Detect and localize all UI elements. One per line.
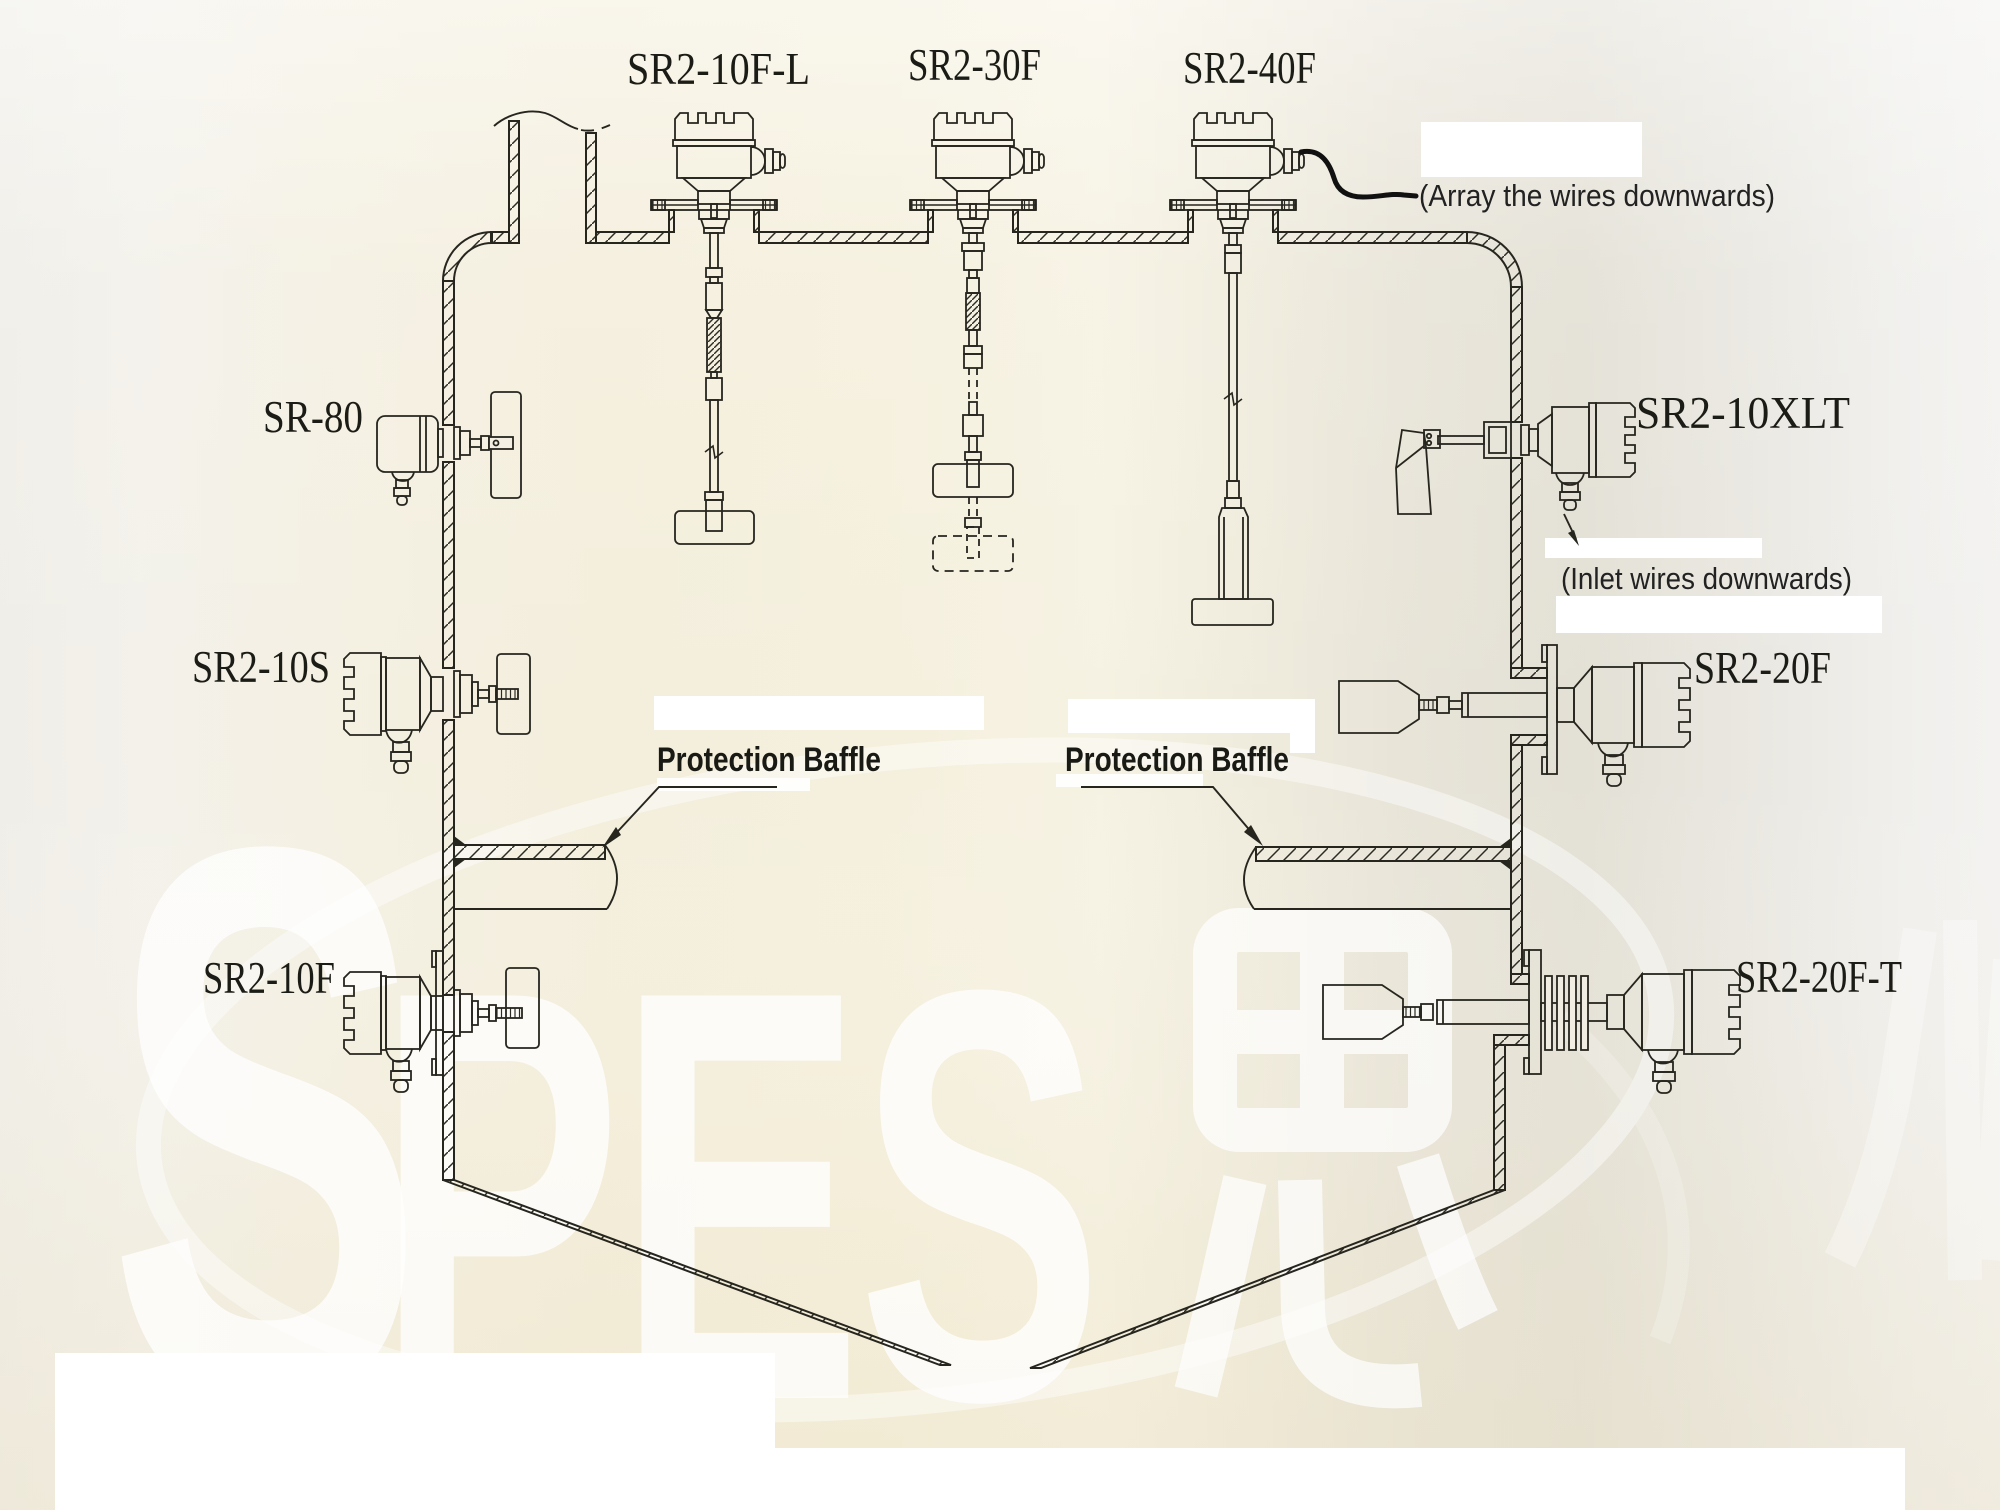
svg-text:(Array the wires downwards): (Array the wires downwards) <box>1419 178 1775 213</box>
svg-text:Protection Baffle: Protection Baffle <box>1065 741 1289 779</box>
chinese char blob 1 <box>1196 930 1478 1392</box>
left cone <box>443 1180 951 1365</box>
tank top-left rounded corner <box>443 232 492 281</box>
right wall SR2-20F-T top step bar <box>1511 974 1529 984</box>
right wall segment 3 <box>1511 745 1522 974</box>
svg-text:SR2-30F: SR2-30F <box>908 40 1041 90</box>
left wall segment 1 <box>443 281 454 425</box>
sensor SR2-20F-T <box>1323 950 1740 1093</box>
right wall SR2-20F top step bar <box>1511 668 1547 678</box>
svg-text:SR2-20F-T: SR2-20F-T <box>1736 952 1902 1002</box>
right protection baffle <box>1244 838 1511 909</box>
left baffle leader <box>602 787 777 848</box>
left protection baffle <box>454 836 617 909</box>
svg-text:SR2-10XLT: SR2-10XLT <box>1636 388 1850 438</box>
svg-text:SR2-10S: SR2-10S <box>192 642 330 692</box>
tank top plate segment nozzle2 to nozzle3 <box>1018 232 1188 243</box>
tank top-right rounded corner <box>1467 232 1522 287</box>
svg-text:SR2-10F-L: SR2-10F-L <box>627 44 810 94</box>
tank top plate segment nozzle1 to nozzle2 <box>759 232 928 243</box>
svg-text:(Inlet wires downwards): (Inlet wires downwards) <box>1561 561 1852 596</box>
left wall segment 2 <box>443 462 454 668</box>
tank top plate segment left of pipe <box>491 232 509 243</box>
right wall segment 1 <box>1511 287 1522 422</box>
tank top plate segment nozzle3 to right corner <box>1278 232 1467 243</box>
svg-text:Protection Baffle: Protection Baffle <box>657 741 881 779</box>
left wall segment 3 <box>443 720 454 995</box>
sensor SR2-10S <box>344 653 530 773</box>
sensor SR2-10F-L <box>651 113 785 544</box>
chinese char blob right edge <box>1840 920 2000 1280</box>
pipe break line <box>494 111 578 129</box>
right wall segment 2 <box>1511 458 1522 668</box>
svg-text:SR2-10F: SR2-10F <box>203 953 335 1003</box>
sensor SR2-40F <box>1170 113 1416 625</box>
sensor SR-80 <box>377 392 521 505</box>
svg-text:SR2-40F: SR2-40F <box>1183 43 1316 93</box>
right cone <box>1030 1190 1505 1368</box>
right wall SR2-20F bottom step bar <box>1511 735 1547 745</box>
sensor SR2-30F <box>910 113 1044 571</box>
inlet pipe right wall <box>586 133 596 243</box>
svg-text:SR-80: SR-80 <box>263 392 363 442</box>
left wall segment 4 <box>443 1032 454 1180</box>
sensor SR2-10XLT <box>1396 403 1635 546</box>
right baffle leader <box>1081 787 1263 846</box>
sensor SR2-10F <box>344 951 539 1092</box>
tank top plate segment pipe to nozzle1 <box>596 232 669 243</box>
right wall lower segment <box>1494 1045 1505 1190</box>
right wall SR2-20F-T bottom step bar <box>1494 1035 1529 1045</box>
svg-text:SR2-20F: SR2-20F <box>1694 643 1831 693</box>
sensor SR2-20F <box>1339 645 1690 786</box>
swoosh ellipse <box>116 680 1695 1479</box>
inlet pipe left wall <box>509 121 519 243</box>
